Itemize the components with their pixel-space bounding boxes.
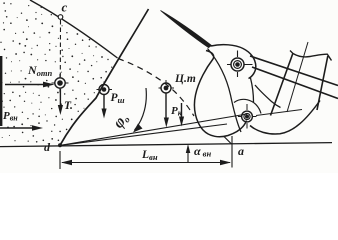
svg-text:c: c — [62, 0, 68, 15]
node d (bucket cutting edge) — [58, 143, 62, 147]
N_отп force arrow — [5, 82, 55, 88]
angle tick — [224, 137, 232, 145]
arm lower edge — [252, 67, 338, 99]
svg-text:Ц.т: Ц.т — [174, 73, 196, 85]
center of gravity Ц.т marker — [159, 80, 175, 96]
force application point N_отп (circle-dot marker) — [52, 74, 69, 93]
P_к force arrow — [179, 103, 184, 127]
vertical arrow up to ground line — [186, 144, 191, 162]
soil stipple dots — [0, 2, 112, 142]
arm upper edge — [250, 56, 338, 86]
bucket rear wall outer line — [251, 78, 254, 102]
bucket heel outer curve — [250, 101, 320, 135]
dimension line L_вн — [61, 160, 231, 165]
force point P_ш marker — [97, 82, 113, 98]
extension line at a — [231, 136, 233, 168]
P_ш force arrow — [102, 95, 107, 119]
bucket boss over upper hinge — [211, 45, 256, 79]
bucket front wall (blade) from d to tip — [60, 9, 149, 145]
svg-text:a: a — [238, 144, 244, 158]
P_вн force arrow — [0, 125, 43, 131]
upper hinge pin O1 — [227, 51, 253, 78]
ground line through d — [0, 143, 332, 147]
soil slip surface line through c — [30, 0, 118, 58]
bucket rear wall inner line — [208, 49, 242, 133]
svg-text:d: d — [44, 140, 51, 154]
bucket shell inner curve (big C) — [194, 51, 246, 137]
dashed vertical line from c — [59, 20, 61, 77]
line d to lower hinge — [60, 114, 247, 145]
bracket line behind arm — [255, 85, 281, 108]
link bar left edge — [271, 53, 294, 116]
scan artifact bar left edge — [0, 56, 2, 126]
thin diagonal rod line — [287, 42, 308, 112]
dashed slip line through Ц.т — [118, 59, 194, 117]
lower hinge pin O2 — [238, 104, 257, 129]
line d at angle alpha — [60, 124, 227, 145]
bucket top lip wedge — [161, 11, 212, 48]
angle phi_0 arc with arrow — [133, 88, 146, 133]
link bar top break line — [290, 51, 332, 61]
svg-text:T.: T. — [64, 100, 73, 112]
node c (small circle) — [58, 15, 63, 20]
extension line below d — [59, 151, 61, 169]
link bar right edge — [317, 56, 328, 110]
thin line right of lower hinge — [256, 110, 302, 116]
boss arc around lower hinge — [234, 99, 261, 113]
weight force arrow from Ц.т — [164, 94, 169, 128]
T force arrow (vertical, down) — [58, 89, 63, 115]
